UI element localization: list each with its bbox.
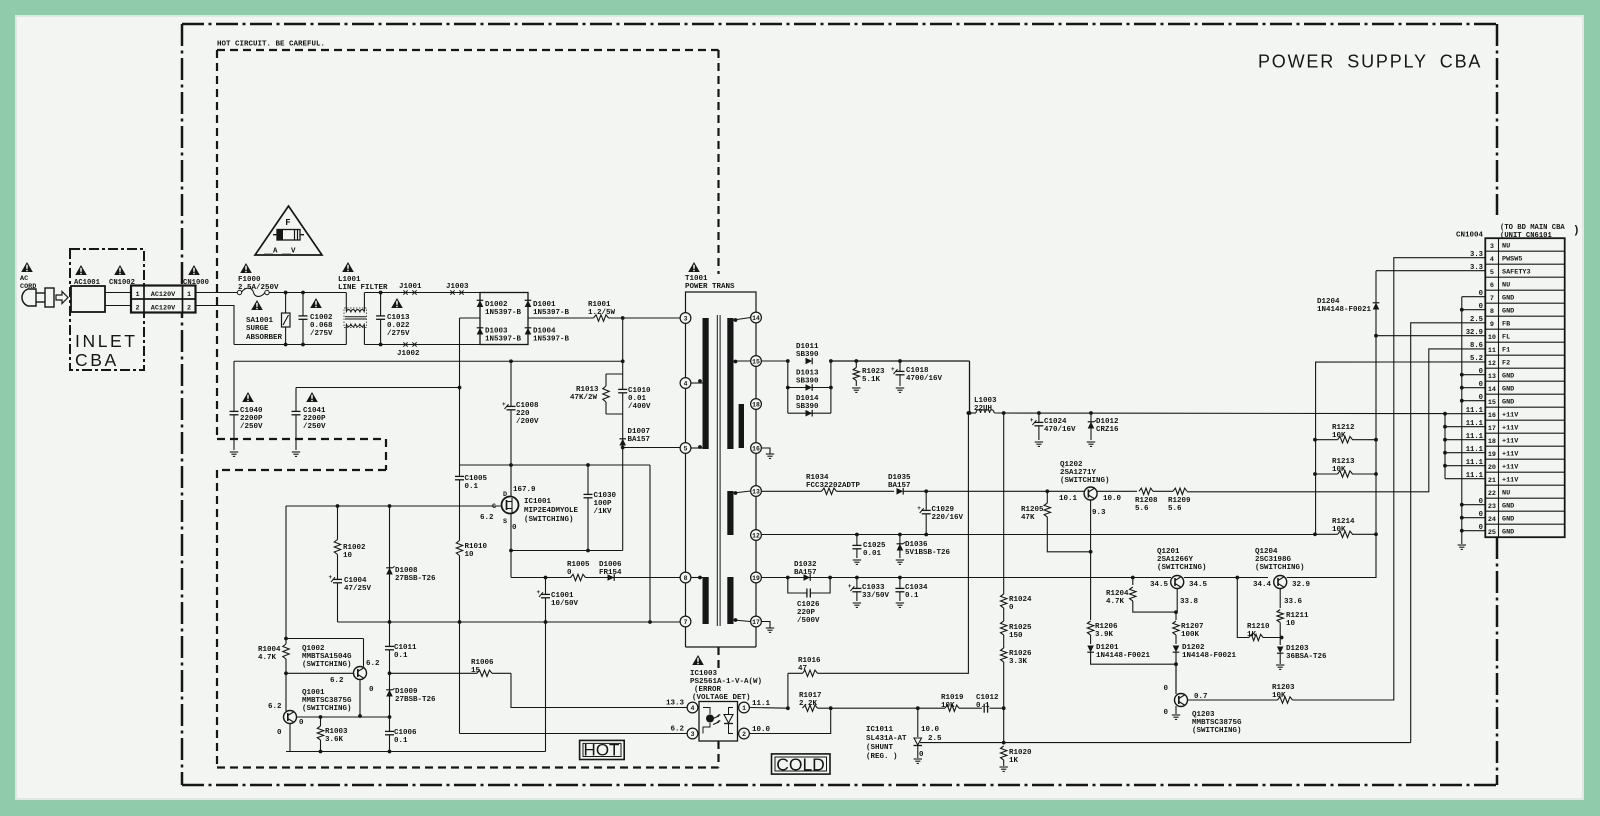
svg-text:/250V: /250V <box>303 423 326 431</box>
wire AC1001 to CN1002 table line1 <box>105 292 131 294</box>
svg-text:SB390: SB390 <box>796 378 819 386</box>
svg-text:R1210: R1210 <box>1247 623 1270 631</box>
svg-text:+11V: +11V <box>1502 412 1519 420</box>
svg-text:HOT CIRCUIT. BE CAREFUL.: HOT CIRCUIT. BE CAREFUL. <box>217 41 325 49</box>
svg-text:27BSB-T26: 27BSB-T26 <box>395 696 436 704</box>
svg-text:8: 8 <box>1490 308 1494 316</box>
resistor R1002 10 <box>337 506 339 622</box>
transformer secondary winding bar top <box>727 318 733 449</box>
svg-text:0: 0 <box>299 719 304 727</box>
diode D1009 27BSB-T26 <box>386 690 393 697</box>
svg-text:4: 4 <box>1490 256 1494 264</box>
svg-text:1: 1 <box>135 291 139 299</box>
svg-text:/275V: /275V <box>310 330 333 338</box>
svg-text:1N5397-B: 1N5397-B <box>533 336 570 344</box>
svg-text:MIP2E4DMYOLE: MIP2E4DMYOLE <box>524 507 579 515</box>
resistor R1026 3.3K <box>1003 648 1005 662</box>
svg-text:L1001: L1001 <box>338 276 361 284</box>
diode D1204 1N4148-F0021 <box>1373 303 1380 310</box>
svg-text:GND: GND <box>1502 529 1514 537</box>
svg-text:CN1000: CN1000 <box>183 279 209 287</box>
svg-text:BA157: BA157 <box>794 569 817 577</box>
ground at pin17 <box>761 622 770 629</box>
svg-text:ABSORBER: ABSORBER <box>246 334 283 342</box>
svg-text:1K: 1K <box>1009 757 1019 765</box>
label box COLD <box>772 754 831 774</box>
svg-text:4.7K: 4.7K <box>1106 598 1125 606</box>
ground for D1012 <box>1087 441 1095 443</box>
svg-text:+11V: +11V <box>1502 425 1519 433</box>
svg-text:15: 15 <box>752 358 760 365</box>
ground for C1018 <box>896 387 904 389</box>
wire L1001 to bridge top <box>364 292 480 294</box>
svg-text:(SWITCHING): (SWITCHING) <box>302 661 352 669</box>
svg-text:19: 19 <box>752 575 760 582</box>
svg-text:F1: F1 <box>1502 347 1510 355</box>
IC1003 pin 1 <box>739 702 750 713</box>
label box HOT <box>580 740 625 759</box>
wire pin5 SAFETY3 <box>1376 270 1485 272</box>
wire D1035 onward <box>904 490 1048 492</box>
svg-text:2: 2 <box>135 304 139 312</box>
svg-text:3.3: 3.3 <box>1470 251 1483 259</box>
resistor R1213 10K <box>1315 473 1338 475</box>
svg-text:R1025: R1025 <box>1009 624 1032 632</box>
svg-text:220/16V: 220/16V <box>932 514 964 522</box>
diode D1201 1N4148-F0021 <box>1090 635 1092 644</box>
svg-text:C1034: C1034 <box>905 584 928 592</box>
svg-text:(REG. ): (REG. ) <box>866 753 898 761</box>
transformer T1001 outline <box>686 292 757 318</box>
diode D1011 SB390 <box>806 358 813 365</box>
svg-text:13: 13 <box>1488 373 1496 381</box>
svg-text:SB390: SB390 <box>796 351 819 359</box>
svg-text:R1010: R1010 <box>465 543 488 551</box>
transformer pin 5 <box>680 443 691 454</box>
svg-text:10K: 10K <box>1332 466 1346 474</box>
fuse F1000 <box>237 290 241 294</box>
svg-text:+11V: +11V <box>1502 464 1519 472</box>
capacitor C1040 wire <box>233 361 235 450</box>
svg-text:R1013: R1013 <box>576 386 599 394</box>
svg-text:2SA1266Y: 2SA1266Y <box>1157 556 1194 564</box>
svg-text:R1003: R1003 <box>325 728 348 736</box>
svg-text:3.3: 3.3 <box>1470 264 1483 272</box>
ground for C1040 <box>230 451 238 453</box>
svg-text:R1205: R1205 <box>1021 506 1044 514</box>
resistor R1210 1K <box>1249 636 1263 638</box>
svg-text:(SWITCHING): (SWITCHING) <box>1157 564 1207 572</box>
fuse F1000 warning triangle <box>240 263 252 273</box>
transformer pin 17 <box>751 616 762 627</box>
svg-text:6.2: 6.2 <box>480 514 494 522</box>
svg-text:R1204: R1204 <box>1106 590 1129 598</box>
svg-text:0.1: 0.1 <box>394 652 408 660</box>
wire HV DC bus <box>622 318 624 374</box>
wire pin10 FL <box>1376 335 1485 337</box>
svg-text:C1024: C1024 <box>1044 418 1067 426</box>
wire R1006 row <box>390 672 512 674</box>
svg-text:150: 150 <box>1009 632 1023 640</box>
svg-text:34.4: 34.4 <box>1253 581 1272 589</box>
wire pin19 row <box>761 577 1171 579</box>
svg-text:Q1201: Q1201 <box>1157 548 1180 556</box>
svg-text:__A __V: __A __V <box>263 248 296 256</box>
svg-text:14: 14 <box>1488 386 1496 394</box>
ground for C1025 <box>853 559 861 561</box>
svg-text:1N4148-F0021: 1N4148-F0021 <box>1317 306 1372 314</box>
resistor R1212 10K <box>1315 439 1338 441</box>
svg-text:C1029: C1029 <box>932 506 955 514</box>
transformer pin 14 <box>751 312 762 323</box>
diode D1008 27BSB-T26 <box>389 506 391 622</box>
svg-text:0.1: 0.1 <box>394 737 408 745</box>
svg-text:5.2: 5.2 <box>1470 355 1483 363</box>
resistor R1205 47K <box>1046 491 1048 503</box>
diode D1203 36BSA-T26 <box>1277 647 1284 654</box>
wire 9.? node to IC1011 <box>917 708 919 737</box>
svg-text:/500V: /500V <box>797 617 820 625</box>
svg-text:GND: GND <box>1502 295 1514 303</box>
resistor R1023 5.1K <box>855 361 857 386</box>
svg-text:0: 0 <box>1009 604 1014 612</box>
transformer secondary winding bar low <box>727 577 733 624</box>
wire R1016 feedback riser <box>788 413 969 673</box>
svg-text:1N5397-B: 1N5397-B <box>533 309 570 317</box>
svg-text:14: 14 <box>752 315 760 322</box>
svg-text:17: 17 <box>752 619 760 626</box>
svg-text:C1002: C1002 <box>310 314 333 322</box>
svg-text:R1034: R1034 <box>806 474 829 482</box>
resistor R1020 1K <box>1003 746 1005 760</box>
svg-text:FB: FB <box>1502 321 1510 329</box>
wire box right edge x=650 <box>649 465 651 622</box>
svg-text:0: 0 <box>512 524 517 532</box>
svg-text:NU: NU <box>1502 490 1510 498</box>
svg-text:36BSA-T26: 36BSA-T26 <box>1286 653 1327 661</box>
svg-text:10.0: 10.0 <box>921 726 940 734</box>
transformer primary winding bar upper <box>703 318 709 449</box>
resistor R1207 100K <box>1175 612 1177 620</box>
resistor R1016 47 <box>803 672 818 674</box>
svg-text:(SWITCHING): (SWITCHING) <box>302 705 352 713</box>
svg-text:3: 3 <box>691 731 695 738</box>
svg-text:Q1001: Q1001 <box>302 689 325 697</box>
svg-text:D1012: D1012 <box>1096 418 1119 426</box>
svg-text:CN1004: CN1004 <box>1456 232 1484 240</box>
wire D1007 to transformer pin5 <box>623 447 681 449</box>
svg-text:167.9: 167.9 <box>513 486 536 494</box>
svg-text:D1006: D1006 <box>599 561 622 569</box>
svg-text:2: 2 <box>187 304 191 312</box>
svg-text:18: 18 <box>1488 438 1496 446</box>
svg-text:5V1BSB-T26: 5V1BSB-T26 <box>905 549 951 557</box>
resistor R1006 15 <box>477 672 492 674</box>
capacitor C1006 0.1 <box>389 717 391 752</box>
svg-text:T1001: T1001 <box>685 275 708 283</box>
svg-text:0.1: 0.1 <box>465 483 479 491</box>
svg-text:C1008: C1008 <box>516 402 539 410</box>
resistor R1003 3.6K <box>320 717 322 752</box>
svg-text:2.5A/250V: 2.5A/250V <box>238 284 279 292</box>
svg-text:34.5: 34.5 <box>1189 581 1208 589</box>
transistor Q1002 MMBTSA1504G <box>354 667 367 680</box>
svg-text:100K: 100K <box>1181 631 1200 639</box>
svg-text:9: 9 <box>1490 321 1494 329</box>
wire CN1000 pin2 lower AC line <box>196 306 235 345</box>
svg-text:R1004: R1004 <box>258 646 281 654</box>
svg-text:SB390: SB390 <box>796 403 819 411</box>
svg-text:21: 21 <box>1488 477 1496 485</box>
wire R1005 D1006 row y=577.5 <box>511 577 680 579</box>
wire R1034 to D1035 <box>837 490 895 492</box>
wire to IC1003 pin3 <box>460 733 688 735</box>
ground for GND bus <box>1458 544 1466 546</box>
svg-text:33.6: 33.6 <box>1284 598 1303 606</box>
diode D1001 1N5397-B <box>525 300 532 307</box>
svg-text:(SWITCHING): (SWITCHING) <box>1060 477 1110 485</box>
svg-text:3: 3 <box>684 315 688 322</box>
capacitor C1041 warning triangle <box>306 392 318 402</box>
svg-text:GND: GND <box>1502 308 1514 316</box>
capacitor C1002 wire <box>302 293 304 345</box>
diode D1032 BA157 <box>804 574 811 581</box>
svg-text:C1041: C1041 <box>303 407 326 415</box>
wire pin13 row <box>761 490 822 492</box>
svg-text:10: 10 <box>465 551 475 559</box>
transformer pin 7 <box>680 616 691 627</box>
bridge rectifier box <box>480 293 528 345</box>
svg-text:HOT: HOT <box>584 741 620 760</box>
transistor Q1202 2SA1271Y <box>1084 487 1097 500</box>
svg-text:(VOLTAGE DET): (VOLTAGE DET) <box>692 694 751 702</box>
svg-text:33.8: 33.8 <box>1180 598 1199 606</box>
svg-text:IC1011: IC1011 <box>866 726 894 734</box>
svg-text:1.2/5W: 1.2/5W <box>588 309 616 317</box>
wire Q1001 base <box>297 716 390 718</box>
svg-text:D1036: D1036 <box>905 541 928 549</box>
diode D1004 1N5397-B <box>525 328 532 335</box>
svg-text:1: 1 <box>742 705 746 712</box>
connector CN1004 table <box>1485 238 1564 537</box>
svg-text:100P: 100P <box>594 500 613 508</box>
svg-text:D1014: D1014 <box>796 395 819 403</box>
wire rectifier right leg <box>830 361 832 413</box>
svg-text:15: 15 <box>1488 399 1496 407</box>
svg-text:R1026: R1026 <box>1009 650 1032 658</box>
AC cord warning triangle <box>21 262 33 272</box>
wire horizontal y=465 <box>460 464 651 466</box>
svg-text:3: 3 <box>1490 243 1494 251</box>
svg-text:0.01: 0.01 <box>863 550 882 558</box>
svg-text:BA157: BA157 <box>888 482 911 490</box>
svg-text:16: 16 <box>752 445 760 452</box>
svg-text:D1007: D1007 <box>628 428 651 436</box>
wire C1001 to cold rail <box>545 622 547 752</box>
svg-text:6.2: 6.2 <box>268 703 282 711</box>
diode D1006 FR154 <box>608 574 615 581</box>
diode D1003 1N5397-B <box>477 328 484 335</box>
wire AC1001 to CN1002 table line2 <box>105 305 131 307</box>
svg-text:2SA1271Y: 2SA1271Y <box>1060 469 1097 477</box>
svg-text:R1016: R1016 <box>798 657 821 665</box>
svg-text:3.6K: 3.6K <box>325 736 344 744</box>
svg-text:3.3K: 3.3K <box>1009 658 1028 666</box>
svg-text:/250V: /250V <box>240 423 263 431</box>
svg-text:1N4148-F0021: 1N4148-F0021 <box>1182 652 1237 660</box>
svg-text:23: 23 <box>1488 503 1496 511</box>
svg-text:220P: 220P <box>797 609 816 617</box>
ground for C1034 <box>896 602 904 604</box>
resistor R1203 10K <box>1278 699 1293 701</box>
svg-text:J1003: J1003 <box>446 283 469 291</box>
svg-text:+11V: +11V <box>1502 438 1519 446</box>
svg-text:47/25V: 47/25V <box>344 585 372 593</box>
svg-text:D1011: D1011 <box>796 343 819 351</box>
resistor R1001 1.2/5W <box>594 317 609 319</box>
capacitor C1033 33/50V <box>856 578 858 602</box>
wire Q1002 emitter <box>359 680 361 717</box>
svg-text:R1001: R1001 <box>588 301 611 309</box>
lower AC bus <box>234 344 346 346</box>
svg-text:0: 0 <box>277 729 282 737</box>
svg-text:+: + <box>1030 417 1034 424</box>
svg-text:4700/16V: 4700/16V <box>906 375 943 383</box>
svg-text:D: D <box>503 491 507 499</box>
transformer pin 16 <box>751 443 762 454</box>
svg-text:5.6: 5.6 <box>1135 505 1149 513</box>
svg-text:R1020: R1020 <box>1009 749 1032 757</box>
capacitor C1001 10/50V <box>545 578 547 623</box>
svg-text:+: + <box>917 505 921 512</box>
svg-text:F2: F2 <box>1502 360 1510 368</box>
line filter L1001 choke <box>345 293 347 312</box>
svg-text:(SHUNT: (SHUNT <box>866 744 894 752</box>
wire 12V to L1003 <box>969 361 971 413</box>
transistor Q1201 2SA1266Y <box>1171 576 1184 589</box>
ground for C1024 <box>1035 441 1043 443</box>
svg-text:470/16V: 470/16V <box>1044 426 1076 434</box>
resistor R1209 5.6 <box>1173 490 1187 492</box>
svg-text:0.01: 0.01 <box>628 395 647 403</box>
svg-text:12: 12 <box>752 532 760 539</box>
svg-text:D1202: D1202 <box>1182 644 1205 652</box>
ground for R1020 <box>1000 766 1008 768</box>
svg-text:/275V: /275V <box>387 330 410 338</box>
svg-text:MMBTSA1504G: MMBTSA1504G <box>302 653 352 661</box>
transformer pin 18 <box>751 399 762 410</box>
svg-text:D1032: D1032 <box>794 561 817 569</box>
diode D1002 1N5397-B <box>477 300 484 307</box>
svg-text:/200V: /200V <box>516 418 539 426</box>
optocoupler IC1003 body <box>699 702 738 742</box>
snubber C1026 220P/500V <box>788 578 830 594</box>
svg-text:0: 0 <box>567 569 572 577</box>
wire fuse to bridge (top AC line) <box>269 292 346 294</box>
svg-text:R1209: R1209 <box>1168 497 1191 505</box>
diode D1007 BA157 <box>619 439 626 446</box>
wire Q1204 base tap <box>1237 578 1249 638</box>
svg-text:C1005: C1005 <box>465 475 488 483</box>
IC1003 pin 2 <box>739 728 750 739</box>
svg-text:R1024: R1024 <box>1009 596 1032 604</box>
svg-text:BA157: BA157 <box>628 436 651 444</box>
svg-text:D1009: D1009 <box>395 688 418 696</box>
svg-text:10K: 10K <box>1272 692 1286 700</box>
wire Q1204 to +11V riser <box>1287 534 1376 577</box>
zener D1012 CRZ16 <box>1090 413 1092 440</box>
svg-text:10/50V: 10/50V <box>551 600 579 608</box>
capacitor C1034 0.1 <box>899 578 901 602</box>
svg-text:4: 4 <box>684 380 688 387</box>
svg-text:D1004: D1004 <box>533 328 556 336</box>
resistor R1005 0 <box>571 576 586 578</box>
wire D1202 to node <box>1175 653 1177 694</box>
svg-text:NU: NU <box>1502 282 1510 290</box>
svg-text:6: 6 <box>1490 282 1494 290</box>
svg-text:POWER TRANS: POWER TRANS <box>685 283 735 291</box>
wire bridge negative tap <box>460 317 481 319</box>
transformer pin 8 <box>680 572 691 583</box>
svg-text:R1213: R1213 <box>1332 458 1355 466</box>
svg-text:47K/2W: 47K/2W <box>570 394 598 402</box>
ground for IC1011 <box>917 746 919 759</box>
svg-text:6.2: 6.2 <box>670 726 684 734</box>
connector AC1001 body <box>71 286 105 312</box>
svg-text:D1001: D1001 <box>533 301 556 309</box>
svg-text:2.5: 2.5 <box>1470 316 1483 324</box>
line filter L1001 warning triangle <box>342 262 354 272</box>
resistor R1024 0 <box>1003 594 1005 608</box>
svg-text:FCC32202ADTP: FCC32202ADTP <box>806 482 861 490</box>
svg-text:10.0: 10.0 <box>752 726 771 734</box>
svg-text:4.7K: 4.7K <box>258 654 277 662</box>
svg-text:R1207: R1207 <box>1181 623 1204 631</box>
wire source return y=622 <box>338 621 681 623</box>
svg-text:0.1: 0.1 <box>905 592 919 600</box>
svg-text:D1003: D1003 <box>485 328 508 336</box>
svg-text:R1019: R1019 <box>941 694 964 702</box>
surge absorber SA1001 symbol <box>282 313 291 327</box>
capacitor C1002 warning triangle <box>310 298 322 308</box>
svg-text:+11V: +11V <box>1502 451 1519 459</box>
transformer T1001 warning triangle <box>688 262 700 272</box>
wire Q1204 emitter chain <box>1279 589 1281 609</box>
svg-text:CORD: CORD <box>20 283 36 291</box>
capacitor C1011 0.1 <box>389 622 391 717</box>
zener D1036 5V1BSB-T26 <box>899 535 901 559</box>
svg-text:2200P: 2200P <box>303 415 326 423</box>
svg-text:C1030: C1030 <box>594 492 617 500</box>
svg-text:19: 19 <box>1488 451 1496 459</box>
capacitor C1018 4700/16V <box>899 361 901 386</box>
svg-text:C1040: C1040 <box>240 407 263 415</box>
svg-text:Q1002: Q1002 <box>302 645 325 653</box>
svg-text:D1201: D1201 <box>1096 644 1119 652</box>
svg-text:GND: GND <box>1502 516 1514 524</box>
svg-text:10: 10 <box>1488 334 1496 342</box>
svg-text:L1003: L1003 <box>974 397 997 405</box>
HOT circuit dashed boundary <box>217 49 719 51</box>
cold rail y=751.5 <box>286 751 546 753</box>
diode D1202 1N4148-F0021 <box>1175 635 1177 644</box>
wire Q1201 to Q1204 <box>1184 577 1268 579</box>
svg-text:0.068: 0.068 <box>310 322 333 330</box>
svg-text:R1212: R1212 <box>1332 424 1355 432</box>
svg-text:FL: FL <box>1502 334 1510 342</box>
svg-text:C1012: C1012 <box>976 694 999 702</box>
svg-text:IC1003: IC1003 <box>690 670 718 678</box>
